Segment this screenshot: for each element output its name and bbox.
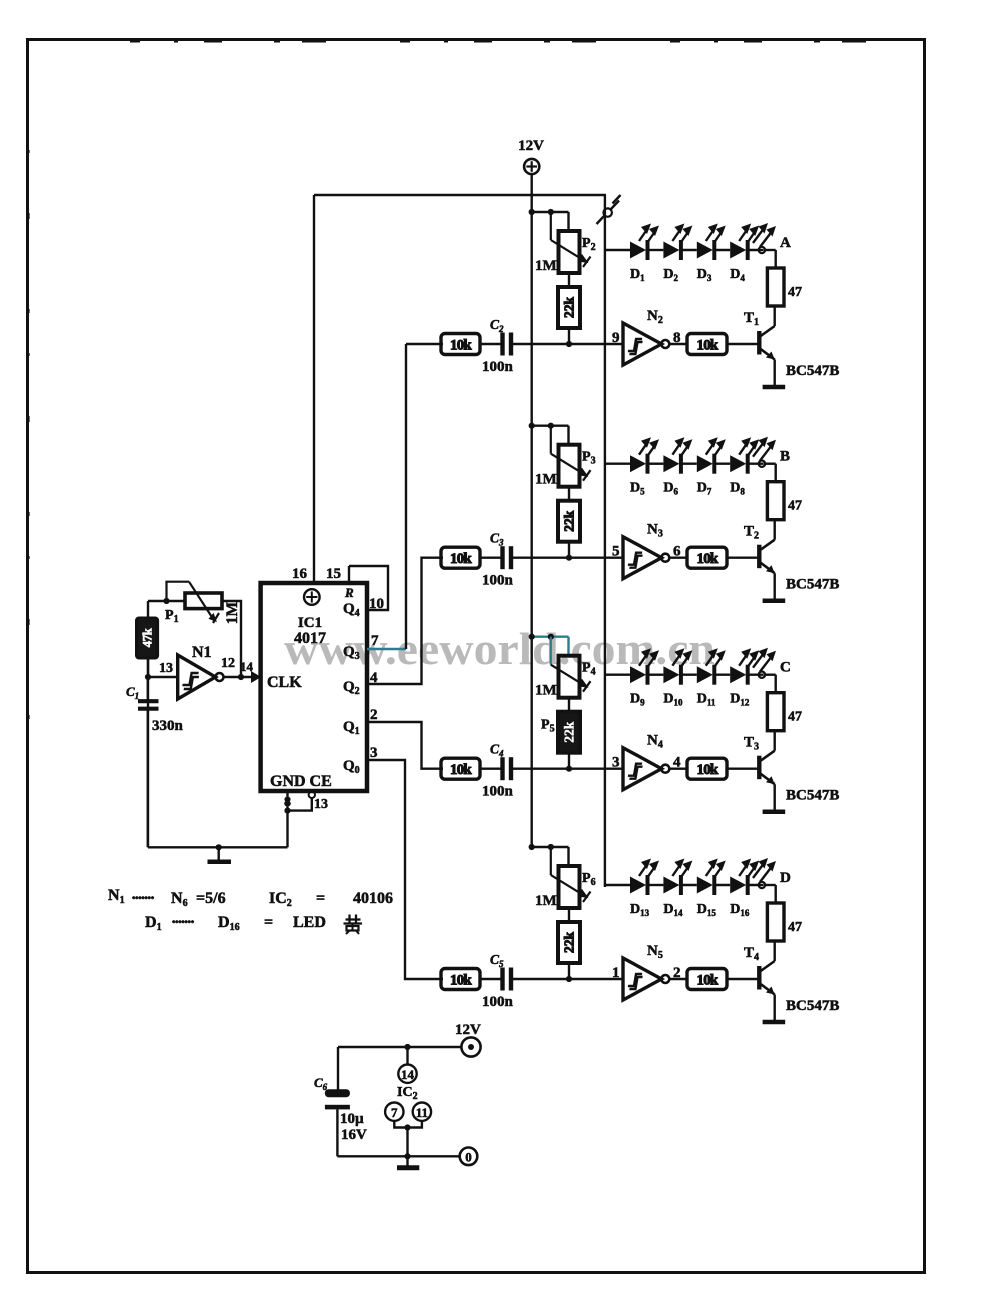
D14 emission arrows (672, 863, 681, 876)
D16 emission arrows (739, 863, 748, 876)
pin 8 GND wire (286, 791, 288, 847)
output terminal B (759, 461, 765, 467)
D9 emission arrows (639, 653, 648, 666)
resistor 47 channel C (767, 693, 784, 731)
switch / connector symbol on rail2 (597, 216, 605, 225)
resistor 22k channel B (558, 501, 580, 542)
svg-text:47k: 47k (140, 627, 155, 647)
CLK input arrowhead (251, 671, 261, 683)
wire base (727, 768, 759, 770)
capacitor C2 channel A (500, 333, 504, 356)
terminal arrows (753, 441, 765, 457)
wire 10k to cap (480, 768, 501, 770)
wire 12V to bus (531, 174, 533, 196)
inverter N1 (178, 655, 216, 699)
wire pin15 to pin10 loop (349, 566, 388, 610)
wire 10k to cap (480, 343, 501, 345)
LED D10 (663, 666, 679, 683)
svg-text:0: 0 (465, 1150, 472, 1165)
svg-text:N1: N1 (192, 644, 212, 661)
LED D13 (630, 877, 646, 894)
resistor 10k input channel A (441, 334, 480, 355)
ground (IC / oscillator) (216, 844, 222, 850)
terminal arrows (753, 227, 765, 243)
wire inverter out (669, 343, 687, 345)
wire LED feed channel B (605, 463, 630, 465)
wire Q1 pin2 to channel C (367, 722, 443, 769)
svg-text:3: 3 (370, 745, 378, 761)
resistor 22k channel A (558, 287, 580, 328)
transistor T2 BC547B channel B (757, 545, 761, 569)
wire pot to 22k (568, 487, 570, 501)
svg-text:10µ: 10µ (340, 1111, 364, 1127)
D11 emission arrows (706, 653, 715, 666)
svg-text:13: 13 (314, 797, 328, 812)
wire row channel C (513, 768, 624, 770)
LED yellow CJK glyph (344, 915, 363, 935)
svg-text:16V: 16V (341, 1127, 367, 1143)
wire 22k to row (568, 542, 570, 558)
IC U1: 4017 counter IC1 (261, 583, 367, 791)
wire N1 out to CLK (223, 676, 260, 678)
wire row channel B (513, 557, 624, 559)
LED D15 (697, 877, 713, 894)
LED D16 (730, 877, 746, 894)
transistor T4 BC547B channel D (757, 966, 761, 990)
D13 emission arrows (639, 863, 648, 876)
LED D11 (697, 666, 713, 683)
resistor 47 channel A (767, 268, 784, 306)
P6 wiper (550, 847, 552, 875)
inverter N3 channel B (623, 537, 662, 579)
wire Q3 pin7 (teal) (367, 648, 406, 650)
resistor 47k (137, 618, 158, 658)
wire Q0 pin3 to channel D (367, 760, 443, 979)
resistor 47 channel B (767, 482, 784, 520)
svg-text:BC547B: BC547B (786, 998, 839, 1014)
wire input node (147, 658, 149, 677)
D1 emission arrows (639, 228, 648, 241)
svg-text:10k: 10k (450, 973, 472, 989)
svg-text:CLK: CLK (267, 674, 302, 691)
wire P1 right to feedback (222, 601, 241, 677)
resistor 22k channel D (558, 922, 580, 963)
P4 wiper (550, 637, 552, 665)
resistor 10k input channel B (441, 547, 480, 568)
wire bottom bus (338, 1046, 461, 1048)
svg-text:5: 5 (612, 544, 620, 560)
LED D1 (630, 242, 646, 259)
wire IC ground run (148, 846, 288, 848)
svg-text:13: 13 (159, 661, 173, 676)
svg-text:10k: 10k (697, 551, 719, 567)
wire pot to 22k (568, 908, 570, 922)
potentiometer P6 channel D (559, 866, 580, 908)
ground channel C (763, 809, 786, 814)
svg-text:100n: 100n (482, 573, 514, 589)
LED D6 (663, 455, 679, 472)
power terminal 12V (bottom) (461, 1037, 480, 1056)
svg-text:15: 15 (326, 566, 341, 582)
LED D14 (663, 877, 679, 894)
svg-text:7: 7 (371, 633, 379, 649)
svg-text:GND CE: GND CE (270, 773, 332, 790)
wire inverter out (669, 978, 687, 980)
svg-text:1M: 1M (535, 472, 557, 488)
svg-text:22k: 22k (562, 721, 577, 743)
output terminal D (759, 882, 765, 888)
svg-text:47: 47 (788, 499, 802, 514)
wire rail2 (LED feed) (604, 195, 606, 887)
ground channel B (763, 598, 786, 603)
svg-text:11: 11 (416, 1105, 428, 1120)
IC2 pin 14 (406, 1047, 408, 1065)
wire 10k to cap (480, 557, 501, 559)
svg-text:10k: 10k (450, 551, 472, 567)
power terminal 12V (top) (524, 159, 539, 174)
capacitor C4 channel C (500, 757, 504, 780)
potentiometer P3 channel B (559, 445, 580, 487)
wire LED feed channel A (605, 249, 630, 251)
terminal arrows (753, 862, 765, 878)
svg-text:2: 2 (370, 707, 378, 723)
svg-text:330n: 330n (152, 718, 184, 734)
svg-text:47: 47 (788, 285, 802, 300)
D10 emission arrows (672, 653, 681, 666)
svg-text:BC547B: BC547B (786, 577, 839, 593)
P1 wiper (167, 582, 190, 601)
wires IC2 pins to ground (394, 1121, 407, 1128)
capacitor C1 (147, 677, 149, 700)
IC1 plus marking (304, 589, 320, 605)
LED D8 (730, 455, 746, 472)
D12 emission arrows (739, 653, 748, 666)
potentiometer P1 (185, 593, 222, 609)
wire LED feed channel D (605, 884, 630, 886)
LED D9 (630, 666, 646, 683)
terminal 0V (460, 1148, 478, 1166)
svg-text:D: D (780, 870, 791, 886)
svg-text:10k: 10k (697, 762, 719, 778)
wire base (727, 557, 759, 559)
D4 emission arrows (739, 228, 748, 241)
wire inverter out (669, 557, 687, 559)
wire 10k to cap (480, 978, 501, 980)
terminal arrows (753, 652, 765, 668)
transistor T1 BC547B channel A (757, 331, 761, 355)
svg-text:B: B (780, 449, 790, 465)
svg-text:BC547B: BC547B (786, 363, 839, 379)
D5 emission arrows (639, 442, 648, 455)
LED D4 (730, 242, 746, 259)
wire pot bus channel A (532, 211, 569, 213)
resistor 10k base channel D (687, 969, 727, 990)
wire 22k to row (568, 753, 570, 769)
D6 emission arrows (672, 442, 681, 455)
D15 emission arrows (706, 863, 715, 876)
resistor 10k base channel B (687, 547, 727, 568)
svg-text:C: C (780, 660, 791, 676)
svg-text:10k: 10k (697, 973, 719, 989)
svg-text:10k: 10k (697, 338, 719, 354)
P3 wiper (550, 426, 552, 454)
wire pot bus channel D (532, 846, 569, 848)
LED D7 (697, 455, 713, 472)
LED D5 (630, 455, 646, 472)
svg-text:16: 16 (292, 566, 308, 582)
inverter N2 channel A (623, 323, 662, 365)
svg-text:1M: 1M (224, 601, 241, 624)
potentiometer P4 channel C (559, 656, 580, 698)
svg-text:1M: 1M (535, 258, 557, 274)
svg-text:22k: 22k (562, 297, 577, 319)
potentiometer P2 channel A (559, 231, 580, 273)
wire pot to 22k (568, 698, 570, 712)
wire 22k to row (568, 963, 570, 979)
inverter N4 channel C (623, 748, 662, 790)
svg-text:1M: 1M (535, 893, 557, 909)
pin 13 CE bubble (309, 792, 315, 798)
svg-text:12: 12 (221, 656, 235, 671)
svg-text:1M: 1M (535, 683, 557, 699)
resistor 10k input channel C (441, 758, 480, 779)
wire pot bus channel C (532, 636, 569, 638)
output terminal A (759, 247, 765, 253)
wire left rail (147, 601, 149, 618)
svg-text:100n: 100n (482, 994, 514, 1010)
resistor 10k base channel A (687, 334, 727, 355)
resistor 47 channel D (767, 903, 784, 941)
svg-text:22k: 22k (562, 932, 577, 954)
svg-text:3: 3 (612, 755, 620, 771)
svg-text:IC1: IC1 (298, 615, 322, 631)
svg-text:A: A (780, 235, 791, 251)
wire base (727, 343, 759, 345)
wire pot bus channel B (532, 425, 569, 427)
wire 22k to row (568, 328, 570, 344)
wire base (727, 978, 759, 980)
svg-text:47: 47 (788, 920, 802, 935)
capacitor C3 channel B (500, 546, 504, 569)
wire Q2 pin4 to channel B (367, 558, 443, 684)
wire pin16 riser (313, 195, 315, 583)
output terminal C (759, 672, 765, 678)
resistor 10k base channel C (687, 758, 727, 779)
wire row channel A (513, 343, 624, 345)
svg-text:9: 9 (612, 330, 620, 346)
wire top bus (314, 194, 606, 196)
wire Q3 riser to channel A (405, 344, 407, 649)
wire P1 left (148, 600, 185, 602)
svg-text:100n: 100n (482, 359, 514, 375)
svg-text:10k: 10k (450, 338, 472, 354)
ground channel D (763, 1020, 786, 1025)
ground channel A (763, 385, 786, 390)
inverter N5 channel D (623, 958, 662, 1000)
P2 wiper (550, 212, 552, 240)
capacitor C5 channel D (500, 968, 504, 991)
wire rail1 (12V to pots) (531, 195, 533, 848)
N1 hysteresis mark (182, 673, 200, 689)
svg-text:R: R (344, 585, 354, 600)
wire LED feed channel C (605, 674, 630, 676)
LED D3 (697, 242, 713, 259)
svg-text:22k: 22k (562, 510, 577, 532)
svg-text:10k: 10k (450, 762, 472, 778)
D2 emission arrows (672, 228, 681, 241)
svg-text:47: 47 (788, 710, 802, 725)
resistor 22k channel C (558, 712, 580, 753)
svg-text:12V: 12V (455, 1022, 481, 1038)
IC2 pin 11 (413, 1103, 431, 1121)
LED D2 (663, 242, 679, 259)
wire pot to 22k (568, 273, 570, 287)
svg-text:BC547B: BC547B (786, 788, 839, 804)
svg-text:10: 10 (369, 596, 384, 612)
D8 emission arrows (739, 442, 748, 455)
resistor 10k input channel D (441, 969, 480, 990)
wire inverter out (669, 768, 687, 770)
transistor T3 BC547B channel C (757, 756, 761, 780)
D3 emission arrows (706, 228, 715, 241)
svg-text:1: 1 (612, 965, 620, 981)
wire bottom ground run (337, 1155, 460, 1157)
IC2 pin 7 (385, 1103, 403, 1121)
LED D12 (730, 666, 746, 683)
svg-text:7: 7 (391, 1105, 398, 1120)
svg-text:14: 14 (401, 1067, 415, 1082)
svg-text:4017: 4017 (294, 630, 326, 647)
pin 15 wire (348, 566, 350, 583)
wire row channel D (513, 978, 624, 980)
svg-text:12V: 12V (518, 138, 544, 154)
svg-text:100n: 100n (482, 784, 514, 800)
ground (bottom) (406, 1156, 408, 1165)
D7 emission arrows (706, 442, 715, 455)
capacitor C6 electrolytic (325, 1089, 350, 1097)
